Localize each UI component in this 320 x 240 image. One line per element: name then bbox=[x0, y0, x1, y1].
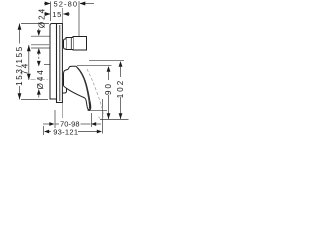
dimension value labels bbox=[52, 0, 79, 136]
svg-text:15: 15 bbox=[52, 10, 62, 19]
svg-text:90: 90 bbox=[104, 82, 113, 95]
centerline bbox=[31, 79, 65, 81]
plate inner back line bbox=[59, 25, 61, 101]
extension line x50.5 bbox=[50, 2, 52, 22]
escutcheon plate bbox=[50, 24, 62, 103]
dimension 93-121 line and arrowheads bbox=[44, 130, 49, 134]
svg-text:93-121: 93-121 bbox=[53, 127, 78, 136]
dimension 15 line tails bbox=[44, 13, 50, 15]
extension lines for 93-121 bbox=[43, 126, 45, 135]
white gap behind 153/155 label bbox=[17, 44, 22, 87]
dimension 153/155 line and arrowheads bbox=[19, 24, 21, 100]
cartridge nut bbox=[66, 38, 73, 50]
dimension 74 line and arrowheads bbox=[28, 45, 30, 80]
svg-text:102: 102 bbox=[116, 79, 125, 98]
extension line from lever tip bbox=[88, 110, 108, 112]
dimension 15 arrowheads bbox=[45, 12, 51, 16]
svg-text:74: 74 bbox=[20, 62, 29, 75]
phantom lever position (dashed) bbox=[87, 69, 103, 119]
lever edge shading lines bbox=[77, 67, 90, 108]
dimension 90 line and arrowheads bbox=[77, 65, 112, 67]
extension lines for 70-98 bbox=[54, 110, 56, 128]
mixer body bbox=[50, 8, 103, 119]
cartridge sleeve nose bbox=[64, 39, 67, 49]
extension line for 74 bbox=[31, 44, 49, 46]
svg-text:52-80: 52-80 bbox=[54, 0, 79, 9]
baseline for 90/102 bbox=[100, 119, 129, 121]
dimension 52-80 line tails bbox=[44, 3, 50, 5]
concealed valve body bbox=[73, 37, 87, 51]
extension lines for Ø24 bbox=[31, 35, 50, 37]
svg-text:Ø44: Ø44 bbox=[36, 68, 45, 89]
lever handle bbox=[64, 66, 91, 110]
extension line x79 bbox=[78, 1, 80, 36]
dimension Ø44 line and arrowheads bbox=[38, 50, 40, 61]
handle hub block bbox=[61, 84, 67, 93]
wall surface extension lines bbox=[61, 8, 63, 24]
dimension 70-98 line and arrowheads bbox=[43, 123, 50, 125]
dimension 102 line and arrowheads bbox=[89, 60, 124, 62]
dimension 52-80 arrowheads bbox=[45, 2, 51, 6]
dimension Ø24 line and arrowheads bbox=[38, 29, 40, 32]
extension lines for 153/155 bbox=[21, 23, 49, 25]
extension line y64.5 bbox=[44, 64, 50, 66]
svg-text:Ø24: Ø24 bbox=[38, 7, 47, 28]
